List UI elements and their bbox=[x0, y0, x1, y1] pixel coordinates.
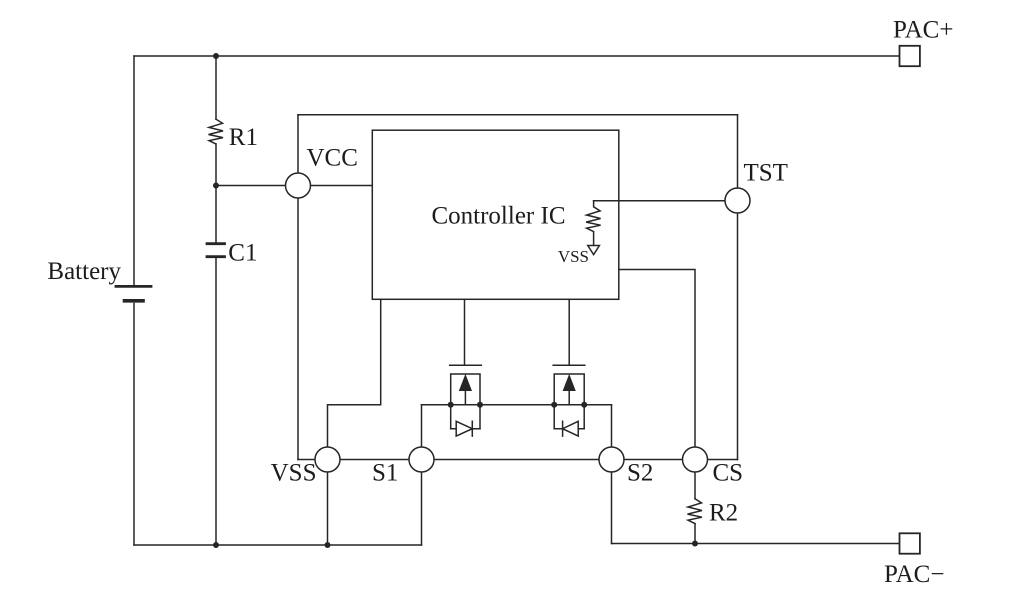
pin S2 terminal circle bbox=[599, 447, 624, 472]
transistor Q2 arrow (source arrow up) bbox=[564, 376, 575, 390]
battery BT1 long plate bbox=[116, 285, 151, 288]
wire: CS to R2 bbox=[694, 472, 696, 499]
wire: C1 bottom lead to bottom rail bbox=[215, 258, 217, 545]
junction node: Q2 left source bbox=[551, 402, 557, 408]
wire: gate lead of Q2 bbox=[568, 299, 570, 365]
body diode D1 bbox=[451, 421, 480, 436]
wire: R1 bottom lead to node bbox=[215, 144, 217, 186]
svg-text:R2: R2 bbox=[709, 500, 738, 527]
svg-text:PAC+: PAC+ bbox=[893, 17, 953, 44]
wire: S2 to bottom-right rail bbox=[611, 472, 613, 544]
terminal PAC+ square bbox=[900, 46, 920, 66]
wire: bottom-right rail to PAC- bbox=[612, 543, 900, 545]
svg-text:Controller IC: Controller IC bbox=[431, 203, 565, 230]
svg-text:S2: S2 bbox=[627, 460, 653, 487]
outer module box top edge bbox=[298, 114, 738, 116]
arrow to internal VSS (open triangle down) bbox=[588, 246, 600, 255]
svg-text:C1: C1 bbox=[228, 240, 257, 267]
wire: battery positive vertical bbox=[133, 56, 135, 285]
transistor Q2 body box bbox=[554, 374, 584, 429]
svg-text:CS: CS bbox=[713, 460, 744, 487]
junction node: Q1 left source bbox=[448, 402, 454, 408]
transistor Q1 body box bbox=[451, 374, 480, 429]
wire: node to VCC pin bbox=[216, 185, 372, 187]
junction node: top rail / R1 bbox=[213, 53, 219, 59]
outer module box right edge bbox=[737, 115, 739, 460]
svg-text:R1: R1 bbox=[229, 124, 258, 151]
pin S1 terminal circle bbox=[409, 447, 434, 472]
svg-text:TST: TST bbox=[744, 160, 788, 187]
wire: IC VSS pin to VSS terminal bbox=[328, 299, 381, 447]
resistor R1 bbox=[209, 119, 224, 144]
junction node: R1 / C1 / VCC bbox=[213, 183, 219, 189]
battery BT1 short plate bbox=[125, 299, 144, 303]
svg-text:S1: S1 bbox=[372, 460, 398, 487]
junction node: Q1 right source bbox=[477, 402, 483, 408]
svg-text:VSS: VSS bbox=[558, 247, 589, 266]
wire: R2 to bottom rail bbox=[694, 524, 696, 544]
transistor Q1 arrow stem bbox=[464, 390, 466, 405]
wire: battery negative vertical bbox=[133, 304, 135, 546]
pin CS terminal circle bbox=[683, 447, 708, 472]
svg-text:VCC: VCC bbox=[307, 145, 358, 172]
wire: CS pin from IC right edge bbox=[619, 270, 695, 448]
wire: bottom-left rail to S1 riser bbox=[134, 544, 422, 546]
resistor R internal (TST pull-down) bbox=[586, 201, 601, 245]
pin VCC terminal circle bbox=[286, 173, 311, 198]
outer module box left edge bbox=[297, 115, 299, 460]
wire: R1 top lead bbox=[215, 56, 217, 119]
terminal PAC- square bbox=[900, 533, 920, 553]
controller IC U1 body bbox=[372, 130, 619, 299]
svg-text:VSS: VSS bbox=[271, 460, 317, 487]
wire: gate lead of Q1 bbox=[464, 299, 466, 365]
wire: top rail from battery+ to PAC+ bbox=[134, 55, 900, 57]
wire: C1 top lead bbox=[215, 186, 217, 243]
transistor Q2 arrow stem bbox=[568, 390, 570, 405]
body diode D2 (mirrored) bbox=[554, 421, 584, 436]
pin VSS terminal circle bbox=[315, 447, 340, 472]
resistor R2 bbox=[688, 499, 703, 524]
svg-text:PAC−: PAC− bbox=[884, 561, 944, 584]
svg-text:Battery: Battery bbox=[47, 258, 121, 285]
junction node: R2 / bottom rail bbox=[692, 541, 698, 547]
outer module box bottom edge bbox=[298, 459, 738, 461]
transistor Q2 gate bar bbox=[553, 364, 585, 366]
wire: S1 to bottom-left rail bbox=[421, 472, 423, 545]
wire: S1-S2 common source rail bbox=[422, 404, 612, 406]
wire: TST internal net to pull-down bbox=[594, 200, 738, 202]
wire: VSS terminal to bottom rail bbox=[327, 472, 329, 545]
junction node: Q2 right source bbox=[581, 402, 587, 408]
pin TST terminal circle bbox=[725, 188, 750, 213]
wire: S1 riser bbox=[421, 405, 423, 447]
junction node: VSS / bottom rail bbox=[325, 542, 331, 548]
junction node: C1 / bottom rail bbox=[213, 542, 219, 548]
capacitor C1 top plate bbox=[207, 242, 225, 245]
wire: S2 riser bbox=[611, 405, 613, 447]
transistor Q1 gate bar bbox=[450, 364, 482, 366]
capacitor C1 bottom plate bbox=[207, 255, 225, 258]
transistor Q1 arrow (source arrow up) bbox=[460, 376, 471, 390]
